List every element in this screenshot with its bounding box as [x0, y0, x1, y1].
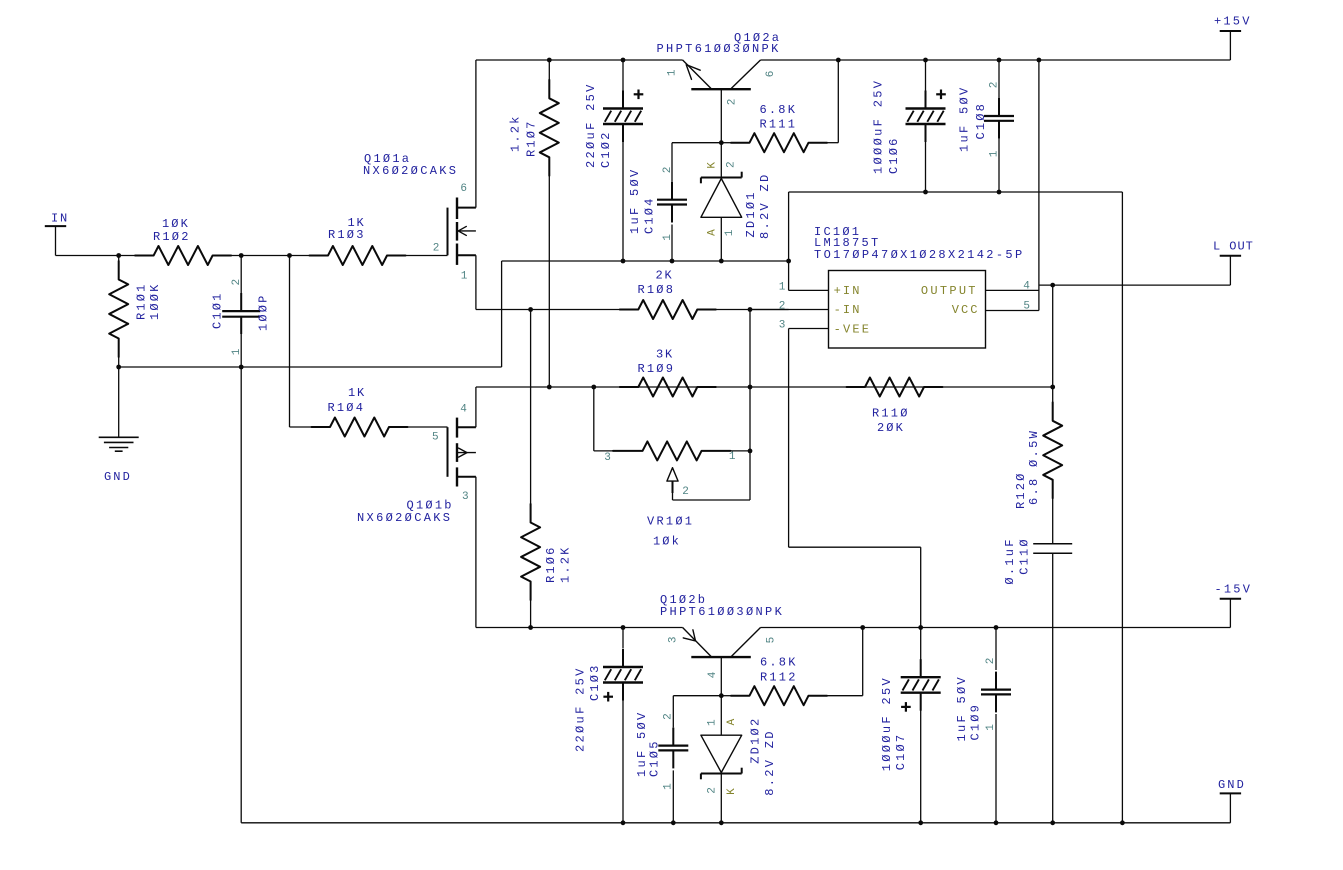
- svg-text:1Øk: 1Øk: [653, 535, 679, 549]
- svg-text:1: 1: [988, 150, 1000, 157]
- svg-text:8.2V ZD: 8.2V ZD: [763, 732, 777, 796]
- svg-text:5: 5: [1023, 300, 1030, 312]
- svg-text:3: 3: [462, 491, 469, 503]
- svg-text:1.2K: 1.2K: [559, 547, 573, 583]
- svg-text:6.8K: 6.8K: [760, 656, 796, 670]
- svg-text:3K: 3K: [656, 348, 673, 362]
- svg-text:2: 2: [779, 300, 786, 312]
- svg-text:A: A: [726, 718, 738, 725]
- svg-text:4: 4: [707, 671, 719, 678]
- svg-text:6.8 Ø.5W: 6.8 Ø.5W: [1027, 430, 1041, 505]
- svg-text:1: 1: [662, 234, 674, 241]
- svg-text:3: 3: [779, 319, 786, 331]
- svg-text:A: A: [707, 229, 719, 236]
- svg-text:+IN: +IN: [834, 284, 860, 298]
- svg-text:ZD1Ø1: ZD1Ø1: [744, 193, 758, 238]
- svg-text:2: 2: [663, 713, 675, 720]
- svg-text:5: 5: [765, 637, 777, 644]
- svg-text:22ØuF 25V: 22ØuF 25V: [584, 84, 598, 168]
- svg-text:2: 2: [985, 658, 997, 665]
- svg-text:L OUT: L OUT: [1213, 240, 1253, 254]
- svg-text:Ø.1uF: Ø.1uF: [1003, 540, 1017, 585]
- svg-text:5: 5: [432, 432, 439, 444]
- svg-text:1: 1: [231, 348, 243, 355]
- svg-text:1: 1: [666, 69, 678, 76]
- svg-text:1ØØK: 1ØØK: [148, 284, 162, 320]
- svg-text:8.2V ZD: 8.2V ZD: [758, 175, 772, 239]
- svg-text:4: 4: [460, 403, 467, 415]
- svg-text:2: 2: [662, 167, 674, 174]
- svg-text:-15V: -15V: [1215, 583, 1251, 597]
- svg-text:VCC: VCC: [952, 303, 978, 317]
- svg-text:1: 1: [461, 270, 468, 282]
- svg-text:1: 1: [663, 783, 675, 790]
- svg-text:4: 4: [1023, 280, 1030, 292]
- svg-text:2: 2: [231, 279, 243, 286]
- svg-text:2ØK: 2ØK: [877, 421, 904, 435]
- svg-text:K: K: [707, 162, 719, 169]
- svg-text:6.8K: 6.8K: [760, 103, 796, 117]
- svg-text:22ØuF 25V: 22ØuF 25V: [573, 668, 587, 752]
- svg-text:1: 1: [706, 719, 718, 726]
- svg-text:2: 2: [727, 99, 739, 106]
- svg-text:1ØK: 1ØK: [162, 217, 189, 231]
- svg-text:PHPT61ØØ3ØNPK: PHPT61ØØ3ØNPK: [657, 42, 780, 56]
- svg-text:3: 3: [604, 452, 611, 464]
- svg-text:PHPT61ØØ3ØNPK: PHPT61ØØ3ØNPK: [660, 605, 783, 619]
- svg-text:ZD1Ø2: ZD1Ø2: [749, 719, 763, 764]
- svg-text:+15V: +15V: [1214, 15, 1250, 29]
- svg-text:1ØØØuF 25V: 1ØØØuF 25V: [880, 678, 894, 772]
- svg-text:2: 2: [988, 82, 1000, 89]
- svg-text:VR1Ø1: VR1Ø1: [647, 515, 692, 529]
- svg-text:2: 2: [682, 486, 689, 498]
- svg-text:3: 3: [667, 636, 679, 643]
- svg-text:1ØØØuF 25V: 1ØØØuF 25V: [872, 80, 886, 174]
- svg-text:1: 1: [985, 724, 997, 731]
- svg-text:IN: IN: [51, 212, 67, 226]
- svg-text:K: K: [726, 788, 738, 795]
- svg-text:2: 2: [433, 242, 440, 254]
- svg-text:GND: GND: [104, 470, 130, 484]
- svg-text:2: 2: [706, 787, 718, 794]
- svg-text:GND: GND: [1218, 778, 1244, 792]
- svg-text:2: 2: [726, 161, 738, 168]
- svg-text:1K: 1K: [348, 386, 365, 400]
- svg-text:1: 1: [729, 451, 736, 463]
- svg-text:1: 1: [724, 229, 736, 236]
- svg-text:1: 1: [779, 281, 786, 293]
- svg-text:6: 6: [460, 183, 467, 195]
- svg-text:6: 6: [765, 71, 777, 78]
- svg-text:-IN: -IN: [834, 303, 860, 317]
- svg-text:2K: 2K: [656, 269, 673, 283]
